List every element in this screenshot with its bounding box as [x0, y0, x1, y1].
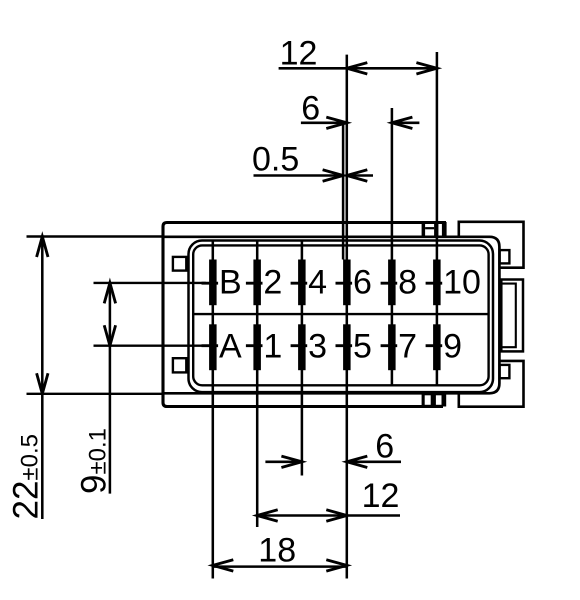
svg-text:5: 5: [353, 327, 372, 365]
dimension 6 (bottom) right arrow: [347, 456, 368, 467]
svg-text:8: 8: [398, 263, 417, 301]
front flange (mating face outline, 22mm reference): [163, 237, 499, 393]
pin contact 7 (bottom row bar): [388, 324, 396, 370]
svg-text:6: 6: [353, 263, 372, 301]
svg-text:1: 1: [263, 327, 282, 365]
dimension 22 down arrow: [37, 373, 48, 394]
svg-text:2: 2: [263, 263, 282, 301]
row centerline tick at pin 8: [381, 282, 398, 285]
dimension 12 (top) right arrow: [416, 63, 437, 74]
left keying notch (bottom): [173, 358, 186, 372]
pin contact 9 (bottom row bar): [433, 324, 441, 370]
row divider line: [193, 313, 488, 315]
row centerline tick at pin B: [202, 282, 219, 285]
row centerline tick at pin 5: [336, 344, 353, 347]
bottom-right tab slot hole: [500, 365, 510, 378]
svg-text:12: 12: [280, 35, 318, 73]
dimension 9 up arrow: [104, 283, 115, 304]
bottom-right mounting tab: [459, 361, 524, 407]
left keying notch (top): [173, 257, 186, 271]
dimension 0.5 right segment: [347, 174, 373, 177]
pin column center line 5/6: [346, 55, 349, 579]
dimension 6 (bottom) left arrow: [281, 456, 302, 467]
bottom edge rib block: [422, 393, 447, 406]
row centerline tick at pin 3: [291, 344, 308, 347]
dimension 6 (bottom) left segment: [265, 461, 302, 464]
outer housing outline (shell top, left and bottom edges): [163, 223, 446, 407]
pin contact A (bottom row bar): [209, 324, 217, 370]
pin column center line 1/2: [256, 241, 259, 528]
dimension 6 (top) left segment: [301, 122, 347, 125]
top edge rib block: [422, 222, 447, 237]
pin column center line 3/4: [301, 241, 304, 476]
dimension 18 line: [213, 565, 347, 568]
pin contact B (top row bar): [209, 260, 217, 306]
dimension 0.5 left arrow: [323, 170, 344, 181]
dimension 12 (bottom) left arrow: [257, 510, 278, 521]
top-right mounting tab: [459, 222, 524, 268]
svg-text:0.5: 0.5: [252, 141, 299, 179]
svg-text:12: 12: [362, 477, 400, 515]
dimension 6 (top) right segment: [392, 122, 420, 125]
dimension 9 line: [109, 283, 112, 494]
dimension 12 (bottom) line: [257, 514, 400, 517]
dimension 6 (top) right arrow: [392, 117, 413, 128]
dimension 6 (top) left arrow: [326, 117, 347, 128]
dimension 0.5 right arrow: [347, 170, 368, 181]
row centerline tick at pin 4: [291, 282, 308, 285]
row centerline tick at pin 6: [336, 282, 353, 285]
svg-text:3: 3: [308, 327, 327, 365]
right middle latch strip: [501, 280, 523, 352]
pin column center line A/B: [212, 241, 215, 579]
top-right tab slot hole: [500, 250, 510, 263]
svg-text:9: 9: [443, 327, 462, 365]
dimension 6 (bottom) right segment: [347, 461, 401, 464]
dimension 22 up arrow: [37, 237, 48, 258]
pin column center line 7/8: [391, 108, 394, 386]
housing center offset line (0.5 ref): [342, 125, 345, 260]
pin contact 10 (top row bar): [433, 260, 441, 306]
svg-text:6: 6: [375, 427, 394, 465]
svg-text:10: 10: [443, 263, 481, 301]
dimension 9 top extension line: [94, 282, 206, 284]
pin contact 5 (bottom row bar): [343, 324, 351, 370]
pin contact 4 (top row bar): [298, 260, 306, 306]
dimension 12 (bottom) right arrow: [326, 510, 347, 521]
dimension 18 right arrow: [326, 560, 347, 571]
pin contact 8 (top row bar): [388, 260, 396, 306]
dimension 22 top extension line: [27, 235, 165, 237]
svg-text:A: A: [219, 327, 242, 365]
dimension 12 (top) line: [279, 67, 437, 70]
pin column center line 9/10: [436, 52, 439, 386]
row centerline tick at pin 1: [246, 344, 263, 347]
pin contact 3 (bottom row bar): [298, 324, 306, 370]
svg-text:4: 4: [308, 263, 327, 301]
pin contact 6 (top row bar): [343, 260, 351, 306]
inner shell outer wall: [189, 241, 494, 393]
pin contact 2 (top row bar): [253, 260, 261, 306]
row centerline tick at pin A: [202, 344, 219, 347]
row centerline tick at pin 7: [381, 344, 398, 347]
dimension 12 (top) left arrow: [347, 63, 368, 74]
dimension 22 bottom extension line: [27, 393, 165, 395]
svg-text:B: B: [219, 263, 242, 301]
svg-text:6: 6: [301, 90, 320, 128]
svg-text:18: 18: [258, 532, 296, 570]
dimension 22 line: [41, 237, 44, 520]
inner shell inner wall: [193, 245, 488, 385]
row centerline tick at pin 2: [246, 282, 263, 285]
dimension 0.5 left segment: [254, 174, 344, 177]
row centerline tick at pin 9: [426, 344, 443, 347]
dimension 18 left arrow: [213, 560, 234, 571]
pin contact 1 (bottom row bar): [253, 324, 261, 370]
dimension 9 down arrow: [104, 325, 115, 346]
svg-text:7: 7: [398, 327, 417, 365]
row centerline tick at pin 10: [426, 282, 443, 285]
dimension 9 bottom extension line: [94, 344, 206, 346]
